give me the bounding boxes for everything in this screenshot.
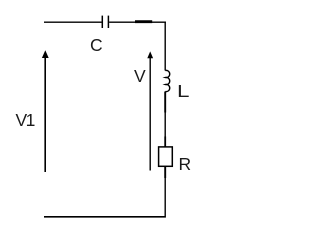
wire right vertical lower [164,166,166,216]
wire bottom horizontal [44,216,166,218]
resistor R bottom lead stub [164,167,166,179]
inductor L bottom lead stub [164,92,166,113]
wire right vertical upper [164,22,166,71]
wire top-right horizontal [109,21,166,23]
voltage arrow V1 shaft [44,57,46,173]
capacitor C label [90,37,103,55]
wire top-left horizontal [44,21,102,23]
wire thick segment [135,20,152,23]
voltage V label [134,68,146,86]
voltage source V1 label [16,112,34,130]
voltage arrow V head [147,51,153,58]
inductor L coil [165,70,170,91]
inductor L label [177,83,189,101]
capacitor C left plate [101,16,103,28]
resistor R box [159,147,173,166]
resistor R top lead stub [164,137,166,148]
wire right vertical middle [164,92,166,148]
voltage arrow V1 head [42,50,49,58]
capacitor C right plate [107,16,109,28]
resistor R label [179,156,192,174]
voltage arrow V shaft [149,58,151,171]
